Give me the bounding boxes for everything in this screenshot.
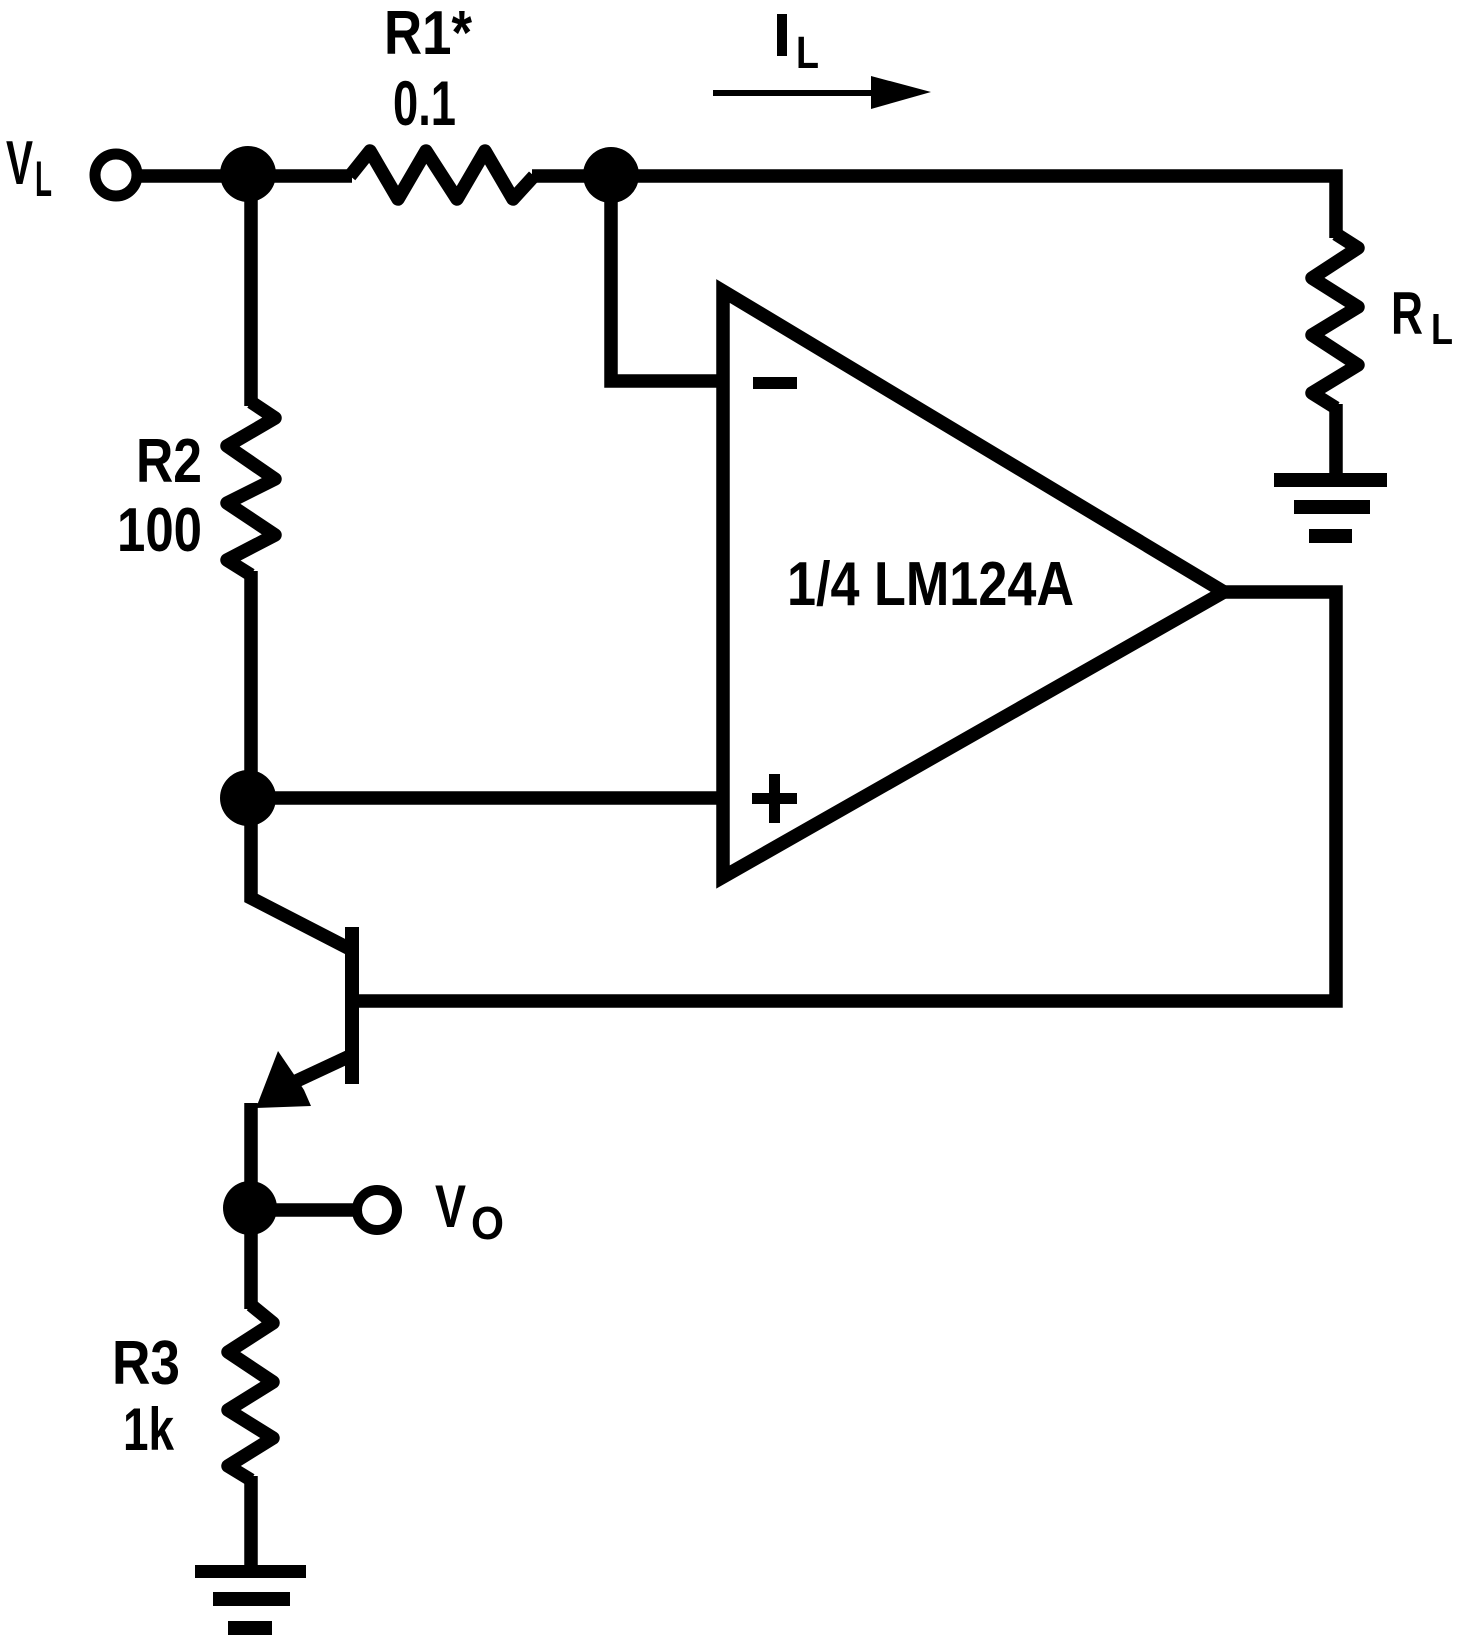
resistor R3 body xyxy=(228,1305,273,1480)
node C junction dot xyxy=(220,770,276,826)
node B junction dot xyxy=(583,147,639,203)
resistor R2 body xyxy=(227,402,275,575)
svg-text:1/4 LM124A: 1/4 LM124A xyxy=(787,550,1074,619)
node VO junction dot xyxy=(223,1181,277,1235)
svg-text:0.1: 0.1 xyxy=(393,69,456,139)
wire node C to transistor collector xyxy=(251,794,348,948)
ground symbol left xyxy=(195,1565,306,1635)
wire emitter node to R3 xyxy=(244,1204,258,1309)
svg-text:1k: 1k xyxy=(123,1396,174,1463)
op-amp plus input symbol xyxy=(752,774,797,823)
op-amp U1 triangle xyxy=(723,291,1224,877)
current arrow IL xyxy=(713,76,931,109)
resistor RL body xyxy=(1312,234,1358,408)
svg-text:R: R xyxy=(1391,280,1423,347)
node A junction dot xyxy=(220,146,276,202)
svg-text:V: V xyxy=(435,1173,466,1240)
svg-text:R3: R3 xyxy=(112,1329,180,1398)
transistor Q1 emitter arrowhead xyxy=(256,1051,311,1108)
wire R1 to RL top rail xyxy=(532,176,1336,238)
svg-text:V: V xyxy=(6,129,33,198)
wire node B to inverting input xyxy=(611,172,722,381)
svg-text:L: L xyxy=(35,151,52,207)
ground symbol right xyxy=(1274,473,1387,543)
svg-text:L: L xyxy=(796,27,819,78)
svg-text:100: 100 xyxy=(117,496,202,565)
resistor R1 body xyxy=(350,151,534,199)
label IL xyxy=(777,14,787,56)
op-amp minus input symbol xyxy=(753,377,797,389)
terminal VL open circle xyxy=(95,154,137,196)
svg-text:R2: R2 xyxy=(136,427,202,496)
transistor Q1 emitter xyxy=(290,1056,350,1084)
svg-text:L: L xyxy=(1431,305,1453,354)
wire node A down to R2 xyxy=(244,172,258,406)
wire R2 to node C xyxy=(244,571,258,798)
transistor Q1 base bar xyxy=(345,927,359,1084)
wire RL to ground xyxy=(1329,404,1343,478)
wire VO node to VO terminal xyxy=(251,1203,354,1217)
wire op-amp output to transistor base xyxy=(359,592,1336,1001)
wire R3 to ground xyxy=(244,1476,258,1572)
svg-text:R1*: R1* xyxy=(384,0,473,68)
svg-text:O: O xyxy=(471,1197,504,1249)
wire VL terminal to node A xyxy=(139,169,352,183)
wire node C to non-inverting input xyxy=(248,791,722,805)
terminal VO open circle xyxy=(357,1190,397,1230)
